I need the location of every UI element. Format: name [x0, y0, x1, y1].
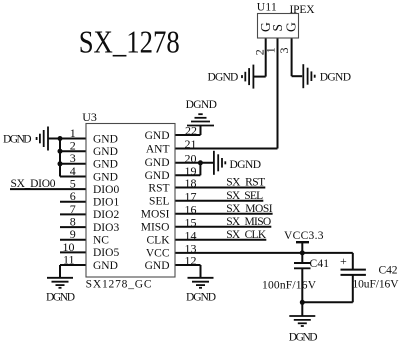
svg-text:GND: GND	[93, 171, 118, 183]
svg-text:NC: NC	[93, 235, 109, 247]
wire pin12 stub	[175, 264, 201, 266]
wire VCC symbol down	[301, 242, 303, 253]
wire pin4 stub	[60, 176, 86, 178]
wire pin3 stub	[60, 163, 86, 165]
ground below pin12	[188, 278, 214, 288]
svg-text:SX_1278: SX_1278	[79, 23, 180, 59]
wire pin10 stub	[60, 251, 86, 253]
wire pins1-4 gnd bus vertical	[59, 139, 61, 177]
junction node pin2	[58, 149, 63, 154]
svg-text:SX_SEL: SX_SEL	[226, 190, 263, 202]
wire pin16 SX_MOSI	[175, 213, 273, 215]
junction node pin3	[58, 161, 63, 166]
svg-text:GND: GND	[93, 260, 118, 272]
svg-text:MOSI: MOSI	[141, 209, 170, 221]
svg-text:DGND: DGND	[3, 133, 32, 145]
svg-text:1: 1	[264, 47, 278, 53]
wire C42 top lead	[352, 253, 354, 269]
svg-text:DGND: DGND	[208, 71, 239, 83]
wire C41 top lead	[301, 253, 303, 263]
svg-text:DIO5: DIO5	[93, 247, 119, 259]
wire pin6 stub	[60, 201, 86, 203]
wire U11 pin S down	[277, 38, 279, 149]
svg-text:10uF/16V: 10uF/16V	[353, 279, 399, 291]
chip left pin labels	[93, 133, 119, 271]
junction node bottom gnd	[300, 300, 305, 305]
svg-text:21: 21	[185, 137, 197, 151]
junction node pin1	[58, 136, 63, 141]
svg-text:DIO1: DIO1	[93, 197, 119, 209]
ground right of pin20	[214, 151, 225, 175]
svg-text:DGND: DGND	[289, 332, 318, 344]
ground left of pin1	[37, 127, 48, 151]
svg-text:GND: GND	[93, 146, 118, 158]
connector U11 box	[258, 14, 299, 39]
svg-text:3: 3	[277, 48, 291, 54]
svg-text:DIO2: DIO2	[93, 209, 119, 221]
svg-text:C42: C42	[379, 265, 398, 277]
svg-text:DGND: DGND	[186, 291, 216, 303]
svg-text:18: 18	[185, 176, 197, 190]
svg-text:G: G	[283, 22, 298, 32]
wire pin9 stub	[60, 239, 86, 241]
svg-text:IPEX: IPEX	[290, 4, 316, 16]
wire pin2 stub	[60, 150, 86, 152]
wire pin8 stub	[60, 226, 86, 228]
svg-text:RST: RST	[148, 182, 169, 194]
chip U3 box	[86, 124, 175, 278]
wire pin17 SX_SEL	[175, 200, 263, 202]
svg-text:U11: U11	[257, 2, 277, 14]
svg-text:DIO3: DIO3	[93, 222, 119, 234]
capacitor C42 plates	[341, 270, 366, 275]
svg-text:SX_MOSI: SX_MOSI	[226, 203, 273, 215]
svg-text:GND: GND	[93, 133, 118, 145]
wire pin22 up to ground	[200, 126, 202, 136]
junction node pin20 dgnd	[198, 160, 203, 165]
svg-text:DGND: DGND	[320, 72, 351, 84]
svg-text:+: +	[340, 254, 347, 268]
svg-text:ANT: ANT	[146, 143, 170, 155]
wire U11 pin2 down	[265, 38, 267, 77]
wire pin13 VCC rail	[175, 252, 353, 254]
wire bottom rail C42 to C41	[302, 301, 353, 303]
svg-text:U3: U3	[82, 110, 97, 124]
svg-text:12: 12	[185, 254, 197, 268]
wire pin7 stub	[60, 213, 86, 215]
wire pin20 stub to ground	[175, 162, 214, 164]
svg-text:15: 15	[185, 215, 197, 229]
svg-text:22: 22	[185, 124, 197, 138]
wire pin1 stub	[60, 138, 86, 140]
svg-text:SX_RST: SX_RST	[226, 177, 265, 189]
wire SX_DIO0 to pin5	[10, 188, 86, 190]
wire U11 pinG right down	[291, 38, 293, 76]
ground above pin22	[187, 114, 214, 125]
wire C41 bottom lead	[301, 268, 303, 302]
ground below capacitors	[289, 316, 315, 326]
capacitor C41 plates	[294, 263, 311, 268]
svg-text:DGND: DGND	[186, 99, 217, 111]
wire pin11 down to ground	[59, 265, 61, 278]
svg-text:SX_DIO0: SX_DIO0	[11, 178, 56, 190]
svg-text:DGND: DGND	[230, 159, 262, 171]
wire pin11 stub	[60, 264, 86, 266]
wire pin19 up to pin20	[199, 163, 201, 176]
wire U11 pin2 to ground	[253, 76, 265, 78]
svg-text:VCC: VCC	[146, 248, 170, 260]
svg-text:GND: GND	[145, 157, 170, 169]
wire pin14 SX_CLK	[175, 239, 266, 241]
svg-text:VCC3.3: VCC3.3	[284, 230, 324, 242]
svg-text:SEL: SEL	[149, 196, 169, 208]
svg-text:DGND: DGND	[46, 291, 75, 303]
svg-text:GND: GND	[93, 159, 118, 171]
wire C42 bottom lead	[352, 275, 354, 302]
svg-text:100nF/16V: 100nF/16V	[262, 280, 317, 292]
svg-text:11: 11	[63, 252, 75, 266]
wire dgnd1 to bus	[48, 138, 60, 140]
svg-text:14: 14	[185, 228, 197, 242]
ground U11 pin2	[242, 65, 253, 89]
svg-text:GND: GND	[145, 130, 170, 142]
ground U11 right pin	[303, 64, 314, 88]
ground below pin11	[47, 278, 73, 288]
svg-text:17: 17	[185, 189, 197, 203]
right pin numbers	[185, 124, 198, 268]
svg-text:DIO0: DIO0	[93, 184, 119, 196]
wire pin18 SX_RST	[175, 187, 265, 189]
svg-text:CLK: CLK	[147, 235, 171, 247]
wire pin22 stub	[175, 134, 201, 136]
wire pin21 ANT to U11	[175, 148, 278, 150]
junction node vcc	[300, 250, 305, 255]
svg-text:SX_CLK: SX_CLK	[226, 229, 267, 241]
svg-text:SX1278_GC: SX1278_GC	[86, 279, 152, 291]
chip right pin labels	[141, 130, 170, 272]
svg-text:C41: C41	[310, 258, 330, 270]
left pin numbers	[63, 126, 76, 267]
VCC3.3 power bar	[296, 241, 309, 243]
wire pin15 SX_MISO	[175, 226, 271, 228]
wire pin12 down to ground	[200, 265, 202, 278]
wire down to bottom ground	[301, 302, 303, 315]
wire U11 pinG to right ground	[292, 75, 303, 77]
svg-text:16: 16	[185, 202, 197, 216]
svg-text:GND: GND	[145, 170, 170, 182]
svg-text:MISO: MISO	[141, 222, 170, 234]
wire pin19 stub	[175, 174, 200, 176]
svg-text:GND: GND	[145, 260, 170, 272]
svg-text:SX_MISO: SX_MISO	[226, 216, 271, 228]
